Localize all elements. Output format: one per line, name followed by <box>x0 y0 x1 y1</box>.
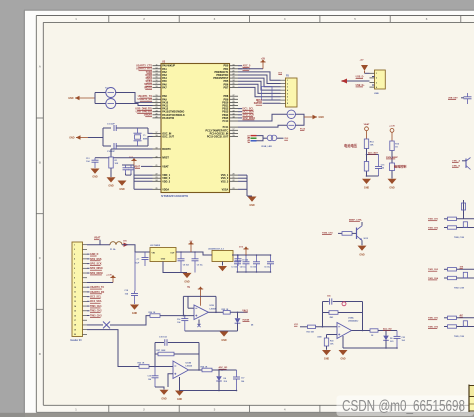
svg-text:25: 25 <box>156 113 158 115</box>
svg-text:+5V: +5V <box>360 59 364 61</box>
svg-text:3V6: 3V6 <box>390 341 393 343</box>
svg-text:MOSI1: MOSI1 <box>144 86 152 89</box>
svg-text:GND_D: GND_D <box>90 253 99 256</box>
svg-text:15: 15 <box>156 77 158 79</box>
svg-text:GND: GND <box>119 188 125 191</box>
svg-text:USART3_TX: USART3_TX <box>90 286 104 289</box>
svg-text:DAC1: DAC1 <box>242 309 249 312</box>
svg-text:20: 20 <box>233 67 235 69</box>
svg-text:23: 23 <box>156 107 158 109</box>
svg-text:GND: GND <box>184 281 190 284</box>
svg-text:16: 16 <box>74 315 76 317</box>
svg-text:GND: GND <box>359 253 365 256</box>
svg-text:CSDN @m0_66515698: CSDN @m0_66515698 <box>342 398 465 415</box>
svg-text:18: 18 <box>156 86 158 88</box>
svg-text:3: 3 <box>287 87 288 89</box>
svg-text:8MHz: 8MHz <box>143 138 148 140</box>
svg-text:19: 19 <box>74 329 76 331</box>
svg-text:I2C2_SDA: I2C2_SDA <box>90 300 102 303</box>
svg-text:RGB_LED: RGB_LED <box>262 146 273 148</box>
svg-text:R26 1K: R26 1K <box>149 312 156 314</box>
svg-text:13: 13 <box>74 301 76 303</box>
svg-text:C3 104: C3 104 <box>231 266 237 269</box>
svg-text:GND: GND <box>161 259 166 261</box>
svg-text:BOOT0: BOOT0 <box>162 148 171 151</box>
svg-text:U1B: U1B <box>210 305 215 307</box>
svg-text:GND: GND <box>108 184 114 187</box>
svg-text:3009: 3009 <box>317 336 321 338</box>
svg-text:ADC_IN1: ADC_IN1 <box>219 366 229 369</box>
svg-text:R22 1K: R22 1K <box>138 363 145 365</box>
svg-text:VSSA: VSSA <box>222 188 229 191</box>
svg-text:GND: GND <box>389 187 395 190</box>
svg-text:TIM2_CON: TIM2_CON <box>454 288 465 290</box>
svg-text:11: 11 <box>74 292 76 294</box>
svg-text:F1 2A: F1 2A <box>110 248 116 251</box>
svg-text:U2 78M05: U2 78M05 <box>150 245 161 247</box>
svg-text:16: 16 <box>156 80 158 82</box>
svg-text:D5: D5 <box>390 338 392 340</box>
svg-text:USART1_RX: USART1_RX <box>138 98 153 101</box>
svg-text:17: 17 <box>233 129 235 131</box>
svg-text:USART3_RX: USART3_RX <box>90 291 105 294</box>
svg-text:1: 1 <box>376 73 377 75</box>
svg-text:SPI2_MOSI: SPI2_MOSI <box>90 272 103 275</box>
svg-text:29: 29 <box>233 101 235 103</box>
svg-text:8: 8 <box>287 103 288 105</box>
svg-text:VIN: VIN <box>152 253 156 255</box>
svg-text:U18A: U18A <box>348 317 354 320</box>
svg-text:C4 10u: C4 10u <box>240 266 246 269</box>
svg-text:6: 6 <box>287 97 288 99</box>
svg-text:VDDA: VDDA <box>162 188 169 191</box>
svg-text:10K: 10K <box>370 145 374 147</box>
svg-text:17: 17 <box>74 320 76 322</box>
svg-text:+3.3V: +3.3V <box>389 126 395 128</box>
svg-text:LM324: LM324 <box>186 365 193 368</box>
svg-text:PC11: PC11 <box>223 127 229 129</box>
svg-text:C11 22P: C11 22P <box>107 124 115 126</box>
svg-text:6: 6 <box>74 268 75 270</box>
svg-text:+5V: +5V <box>261 59 266 61</box>
svg-text:30: 30 <box>233 104 235 106</box>
svg-text:电池电压: 电池电压 <box>344 143 358 148</box>
svg-text:2: 2 <box>287 83 288 85</box>
svg-text:C5 104: C5 104 <box>250 266 256 269</box>
svg-text:TIM4_CH3: TIM4_CH3 <box>322 232 333 235</box>
svg-text:SWDIO: SWDIO <box>144 114 152 117</box>
svg-text:3V6: 3V6 <box>224 381 227 383</box>
svg-text:5: 5 <box>74 263 75 265</box>
svg-text:20: 20 <box>156 98 158 100</box>
svg-text:19: 19 <box>156 95 158 97</box>
svg-text:GND: GND <box>161 397 167 400</box>
svg-text:PC15-OSC32_OUT: PC15-OSC32_OUT <box>207 135 229 138</box>
svg-text:PA7: PA7 <box>162 86 167 89</box>
svg-text:GND: GND <box>69 137 75 140</box>
svg-text:2: 2 <box>376 78 377 80</box>
svg-text:VBAT: VBAT <box>94 237 101 240</box>
svg-text:17: 17 <box>156 132 158 134</box>
svg-text:GND: GND <box>324 358 330 361</box>
svg-text:IN4148: IN4148 <box>243 319 251 322</box>
svg-text:28: 28 <box>233 98 235 100</box>
svg-text:34: 34 <box>233 116 235 119</box>
svg-text:R33: R33 <box>330 340 333 342</box>
svg-text:PA15/JTDI: PA15/JTDI <box>162 117 174 120</box>
svg-text:R25 1K: R25 1K <box>222 309 229 311</box>
svg-text:22: 22 <box>233 74 235 76</box>
svg-text:19: 19 <box>233 64 235 66</box>
svg-text:1: 1 <box>74 245 75 247</box>
svg-text:26: 26 <box>233 86 235 88</box>
svg-text:I2C2_SCL: I2C2_SCL <box>90 296 102 299</box>
svg-text:R31 10K: R31 10K <box>307 332 315 334</box>
svg-text:C9 10u: C9 10u <box>197 265 203 267</box>
svg-text:20: 20 <box>156 156 158 158</box>
svg-text:32: 32 <box>233 110 235 112</box>
svg-text:12: 12 <box>74 296 76 298</box>
svg-text:U4 AMS1117-3.3: U4 AMS1117-3.3 <box>208 247 225 250</box>
svg-text:TIM5_CON: TIM5_CON <box>454 336 465 338</box>
svg-text:18: 18 <box>233 132 235 134</box>
svg-text:21: 21 <box>156 101 158 103</box>
svg-text:LM324ADJ: LM324ADJ <box>348 320 358 323</box>
svg-text:GND: GND <box>249 204 255 207</box>
svg-text:10: 10 <box>74 287 76 289</box>
svg-text:R24 1K: R24 1K <box>201 366 208 369</box>
svg-text:TIM2_CH4: TIM2_CH4 <box>428 277 439 280</box>
svg-text:18: 18 <box>156 135 158 137</box>
svg-text:GND: GND <box>340 359 345 361</box>
svg-text:21: 21 <box>233 71 235 73</box>
svg-text:GND: GND <box>132 312 138 315</box>
svg-text:21: 21 <box>156 165 158 167</box>
svg-text:TIM8_CON: TIM8_CON <box>454 237 465 239</box>
svg-text:GND: GND <box>92 176 98 179</box>
svg-text:7: 7 <box>74 273 75 275</box>
svg-text:22: 22 <box>156 104 158 106</box>
svg-text:19: 19 <box>233 135 235 137</box>
svg-text:OSC_OUT: OSC_OUT <box>162 135 174 138</box>
svg-text:20: 20 <box>74 334 76 336</box>
svg-text:SPI2_NSS: SPI2_NSS <box>90 258 102 261</box>
svg-text:25: 25 <box>156 188 158 190</box>
svg-text:TIM3_CH2: TIM3_CH2 <box>90 310 102 313</box>
svg-text:8: 8 <box>74 278 75 280</box>
svg-text:19: 19 <box>156 148 158 150</box>
svg-text:14: 14 <box>156 73 158 76</box>
svg-text:2M2: 2M2 <box>330 317 334 319</box>
svg-text:C19 104: C19 104 <box>159 336 167 339</box>
svg-text:VBAT: VBAT <box>364 123 370 126</box>
svg-text:GND: GND <box>319 116 325 119</box>
svg-text:PC10: PC10 <box>223 121 229 123</box>
svg-text:33: 33 <box>233 113 235 115</box>
svg-text:26: 26 <box>156 117 158 119</box>
svg-text:GND: GND <box>68 97 74 100</box>
svg-text:23: 23 <box>233 188 235 190</box>
svg-text:9: 9 <box>74 282 75 284</box>
svg-text:31: 31 <box>233 107 235 109</box>
svg-text:22: 22 <box>233 180 235 182</box>
svg-text:PB7: PB7 <box>224 86 229 89</box>
svg-text:CTRL_A: CTRL_A <box>452 160 460 163</box>
svg-text:C9 104: C9 104 <box>242 259 249 262</box>
svg-text:15: 15 <box>74 311 76 313</box>
svg-text:5V: 5V <box>187 287 190 289</box>
svg-text:22: 22 <box>156 174 158 176</box>
svg-text:11: 11 <box>156 64 158 66</box>
svg-text:SPI2_SCK: SPI2_SCK <box>90 262 102 265</box>
svg-text:24: 24 <box>233 79 235 82</box>
svg-text:+3.3V: +3.3V <box>106 275 112 277</box>
svg-text:ADC_IN2: ADC_IN2 <box>383 327 392 330</box>
svg-text:C12 22P: C12 22P <box>107 151 115 153</box>
svg-text:ADC_BAT: ADC_BAT <box>368 151 379 154</box>
svg-text:20: 20 <box>233 174 235 176</box>
svg-text:24: 24 <box>156 109 158 112</box>
svg-text:TIM3_CH3: TIM3_CH3 <box>90 314 102 317</box>
svg-text:GND: GND <box>221 339 227 342</box>
svg-text:17: 17 <box>156 83 158 85</box>
svg-text:VBAT: VBAT <box>134 165 141 168</box>
svg-text:1: 1 <box>287 80 288 82</box>
svg-text:Header 20: Header 20 <box>71 340 83 342</box>
svg-text:2: 2 <box>74 249 75 251</box>
svg-text:12: 12 <box>156 67 158 69</box>
svg-text:C16: C16 <box>148 376 151 378</box>
svg-text:SPI2_MISO: SPI2_MISO <box>90 267 103 270</box>
svg-text:25: 25 <box>233 83 235 85</box>
svg-text:STM32F103C8T6: STM32F103C8T6 <box>161 194 189 198</box>
svg-text:GND: GND <box>177 399 182 401</box>
svg-text:C17: C17 <box>241 378 244 380</box>
svg-text:VSS_3: VSS_3 <box>221 180 229 183</box>
svg-text:蜂鸣控制: 蜂鸣控制 <box>394 163 406 168</box>
svg-text:24: 24 <box>156 179 158 182</box>
svg-text:C15: C15 <box>381 164 384 166</box>
svg-text:VDD_3: VDD_3 <box>162 180 171 183</box>
svg-text:27: 27 <box>233 95 235 97</box>
svg-text:C8 104: C8 104 <box>183 264 189 267</box>
svg-text:C23: C23 <box>402 337 405 339</box>
svg-text:U10B: U10B <box>186 362 192 364</box>
svg-text:18: 18 <box>74 325 76 327</box>
svg-text:23: 23 <box>233 77 235 79</box>
svg-text:GND: GND <box>364 187 370 190</box>
svg-text:NRST: NRST <box>162 157 169 160</box>
svg-text:5: 5 <box>287 93 288 95</box>
svg-text:7: 7 <box>287 100 288 102</box>
svg-text:23: 23 <box>156 177 158 179</box>
svg-text:VBAT: VBAT <box>162 165 169 168</box>
svg-text:PB15: PB15 <box>222 117 229 120</box>
svg-text:3: 3 <box>74 254 75 256</box>
svg-text:C6 10u: C6 10u <box>264 267 270 269</box>
svg-text:R27 100K: R27 100K <box>157 350 167 352</box>
svg-text:21: 21 <box>233 177 235 179</box>
svg-text:TIM3_CH1: TIM3_CH1 <box>90 305 102 308</box>
svg-text:10K: 10K <box>115 163 119 165</box>
svg-text:3: 3 <box>376 82 377 84</box>
svg-text:USB: USB <box>374 93 379 95</box>
svg-text:13: 13 <box>156 71 158 73</box>
svg-text:SPI2_MISO: SPI2_MISO <box>243 117 256 120</box>
